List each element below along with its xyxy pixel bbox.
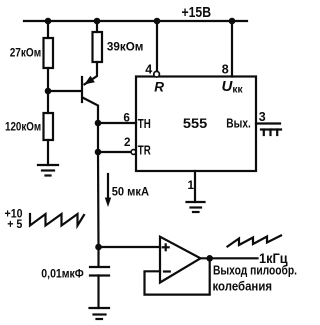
pin name Вых.	[226, 116, 251, 131]
svg-text:2: 2	[124, 136, 131, 149]
label 50 мкА	[112, 185, 150, 199]
wire pin 3 output stub	[256, 122, 280, 124]
wire +15V power rail	[24, 20, 247, 22]
node TH junction	[95, 120, 102, 127]
wire TH node to TR node	[97, 123, 99, 152]
svg-text:120кОм: 120кОм	[5, 120, 41, 134]
pin number 1	[188, 179, 195, 192]
wire base node to R3	[47, 91, 49, 113]
wire R3 to ground	[47, 140, 49, 165]
node capacitor/op-amp junction	[95, 244, 102, 251]
wire TR node down to capacitor node	[97, 152, 100, 247]
ground symbol G1	[38, 165, 58, 176]
pin name Uкк	[222, 78, 244, 96]
junction output/feedback	[206, 255, 213, 262]
pin 4 inversion bubble	[154, 71, 160, 77]
wire pin 4	[156, 21, 158, 72]
label колебания	[213, 278, 273, 293]
wire rail to R1	[47, 21, 49, 38]
output load hatch symbol	[261, 130, 281, 136]
capacitor C1 plates	[90, 267, 109, 276]
value label 39кОм	[107, 40, 144, 54]
svg-text:27кОм: 27кОм	[10, 46, 42, 60]
svg-text:1: 1	[188, 179, 195, 192]
current arrow 50 мкА	[105, 174, 111, 207]
resistor R3 body	[44, 113, 54, 140]
capacitor C1 bottom wire	[97, 276, 99, 309]
svg-text:50 мкА: 50 мкА	[112, 185, 150, 199]
pin number 6	[123, 111, 130, 124]
label Выход пилообр.	[213, 263, 297, 277]
wire pin 1 to ground	[194, 171, 196, 202]
svg-text:колебания: колебания	[213, 278, 273, 293]
op-amp U2 triangle	[160, 237, 201, 283]
wire TH node to IC pin6	[98, 122, 136, 124]
junction rail/pin8	[229, 18, 236, 25]
pin 2 inversion bubble	[131, 150, 136, 155]
label 1кГц	[259, 251, 288, 266]
svg-text:TR: TR	[138, 143, 151, 158]
junction rail/pin4	[154, 18, 161, 25]
pin number 2	[124, 136, 131, 149]
pin number 3	[259, 110, 266, 124]
wire R1 to base node	[47, 68, 49, 91]
svg-text:6: 6	[123, 111, 130, 124]
svg-text:0,01мкФ: 0,01мкФ	[41, 267, 84, 281]
transistor Q1 collector wire	[83, 98, 99, 124]
output sawtooth waveform	[228, 236, 282, 247]
svg-text:555: 555	[183, 116, 208, 131]
label +5 level	[7, 217, 22, 231]
svg-text:4: 4	[145, 63, 152, 77]
IC U1 555 box	[136, 77, 256, 172]
svg-text:Выход пилообр.: Выход пилообр.	[213, 263, 297, 277]
value label 0,01мкФ	[41, 267, 84, 281]
IC label 555	[183, 116, 208, 131]
svg-text:8: 8	[222, 63, 229, 77]
transistor Q1 emitter arrowhead	[84, 76, 95, 85]
junction rail/R1	[45, 18, 52, 25]
resistor R2 body	[93, 32, 103, 62]
capacitor C1 top wire	[97, 247, 99, 266]
svg-text:TH: TH	[138, 116, 151, 131]
value label 120кОм	[5, 120, 41, 134]
transistor Q1 base bar	[81, 77, 83, 102]
wire node to op-amp input	[99, 246, 161, 248]
resistor R1 body	[44, 38, 54, 68]
wire op-amp output	[201, 257, 258, 259]
input sawtooth waveform	[30, 214, 84, 226]
label +10 level	[5, 206, 23, 220]
pin number 4	[145, 63, 152, 77]
transistor Q1 emitter wire	[85, 62, 98, 84]
svg-text:+ 5: + 5	[7, 217, 22, 231]
ground symbol G2	[187, 202, 205, 212]
wire TR node to pin2 bubble	[98, 151, 131, 153]
svg-text:3: 3	[259, 110, 266, 124]
pin name TH	[138, 116, 151, 131]
ground symbol G3	[90, 308, 110, 319]
svg-text:39кОм: 39кОм	[107, 40, 144, 54]
node base junction	[45, 88, 52, 95]
wire pin 8	[231, 21, 233, 77]
svg-text:Вых.: Вых.	[226, 116, 251, 131]
svg-text:+15В: +15В	[182, 4, 212, 21]
junction rail/R2	[94, 18, 101, 25]
value label 27кОм	[10, 46, 42, 60]
node TR junction	[95, 149, 102, 156]
pin name R	[154, 80, 164, 95]
pin name TR	[138, 143, 151, 158]
label +15В supply	[182, 4, 212, 21]
transistor Q1 base wire	[48, 90, 81, 92]
op-amp plus input mark	[163, 244, 169, 250]
op-amp minus input mark	[164, 270, 170, 272]
wire rail to R2	[96, 21, 98, 32]
svg-text:R: R	[154, 80, 164, 95]
feedback wire	[145, 260, 210, 295]
pin number 8	[222, 63, 229, 77]
